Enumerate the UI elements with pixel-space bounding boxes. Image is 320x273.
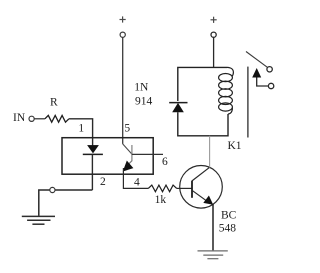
transistor Q1 collector diagonal (192, 167, 210, 181)
svg-text:2: 2 (100, 176, 106, 188)
diode 1N914 (flyback across relay coil) (169, 103, 187, 112)
relay contact terminal circle (268, 83, 273, 88)
relay switch blade (246, 52, 267, 68)
svg-text:1N: 1N (134, 82, 149, 94)
wire: relay bottom to transistor collector (209, 136, 211, 168)
wire: pin 4 emitter down and right to 1k (123, 168, 148, 188)
wire: pin 2 down from LED cathode (91, 154, 93, 190)
terminal circle IN (29, 116, 34, 121)
node + (right supply) (211, 17, 217, 23)
ground (left) (22, 216, 55, 224)
svg-text:K1: K1 (228, 140, 242, 152)
transistor Q1 emitter diagonal with arrow (192, 190, 213, 204)
wire: right supply to relay top (213, 37, 215, 67)
resistor R (45, 115, 69, 122)
relay armature line (247, 67, 249, 138)
svg-text:4: 4 (134, 176, 140, 188)
relay contact arrow (252, 68, 261, 78)
svg-text:6: 6 (162, 156, 168, 168)
svg-text:1: 1 (78, 123, 84, 135)
wire: IN terminal to resistor R (34, 118, 45, 120)
junction terminal circle on ground wire (50, 187, 55, 192)
node + (left supply) (120, 16, 126, 22)
wire: 1k to transistor base (177, 187, 192, 189)
transistor Q1 BC548 circle (180, 166, 223, 209)
ground (right) (198, 251, 228, 259)
terminal circle (left supply) (120, 32, 125, 37)
svg-text:5: 5 (124, 123, 130, 135)
terminal circle (right supply) (211, 32, 216, 37)
relay switch blade terminal circle (267, 67, 272, 72)
wire: emitter to ground (212, 204, 214, 250)
phototransistor in U1: collector diagonal (123, 144, 132, 154)
resistor 1k (148, 185, 176, 192)
wire: pin 2 to ground (horizontal + drop) (39, 190, 93, 216)
svg-text:1k: 1k (155, 194, 167, 206)
svg-text:548: 548 (219, 223, 237, 235)
svg-text:R: R (50, 97, 58, 109)
svg-text:914: 914 (135, 96, 153, 108)
phototransistor base bar (131, 145, 133, 161)
svg-text:BC: BC (221, 210, 237, 222)
wire: contact arrow stem to terminal (257, 78, 269, 87)
LED in optocoupler (anode pin 1, cathode pin 2) (83, 145, 103, 154)
wire: pin 6 (base out to right) (132, 153, 163, 155)
svg-text:IN: IN (13, 112, 26, 124)
wire: left supply to optocoupler pin 5 (122, 37, 124, 143)
relay K1 frame: top edge, left edge (split for diode), bottom edge (178, 67, 228, 135)
transistor Q1 base bar (191, 181, 193, 198)
phototransistor emitter with arrow (124, 161, 133, 171)
wire: resistor R to pin 1 (down into optocoupler) (69, 119, 93, 146)
optocoupler U1 box (62, 138, 153, 175)
relay K1 coil (219, 67, 234, 114)
